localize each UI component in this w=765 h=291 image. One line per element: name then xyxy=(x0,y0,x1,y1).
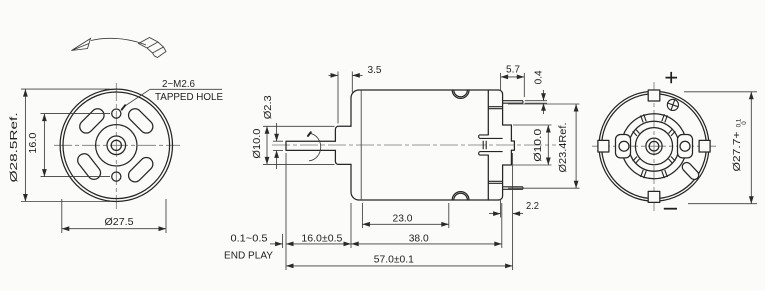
ring circle xyxy=(622,114,687,179)
axis centerline xyxy=(272,144,556,146)
right brush window xyxy=(678,135,693,158)
end play ext lines xyxy=(282,234,284,248)
dimension 16.0 xyxy=(28,114,110,177)
dimension 23.0 xyxy=(362,203,448,228)
minus mark xyxy=(664,208,677,210)
svg-text:38.0: 38.0 xyxy=(409,233,429,245)
rotation arrow around shaft xyxy=(309,133,321,161)
dimension Ø10.0 left xyxy=(252,126,335,164)
inner finger top xyxy=(479,135,503,139)
dimension 57.0±0.1 xyxy=(286,153,513,270)
right brush hole xyxy=(680,141,690,151)
rear bearing tip xyxy=(511,141,514,150)
end cap outline xyxy=(499,90,503,200)
svg-text:Ø10.0: Ø10.0 xyxy=(252,128,263,158)
diagonal vent slot SE xyxy=(680,161,700,182)
terminal slot lines bottom xyxy=(488,181,502,183)
dimension row: END PLAY / 16.0±0.5 / 38.0 xyxy=(224,153,502,270)
tab top xyxy=(648,90,660,101)
centerline horizontal xyxy=(54,144,180,146)
dimension Ø2.3 xyxy=(263,95,283,169)
tapped hole top xyxy=(112,109,121,118)
shaft xyxy=(286,141,335,150)
svg-text:3.5: 3.5 xyxy=(368,64,382,76)
left brush hole xyxy=(619,141,629,151)
radial bar 110deg xyxy=(641,114,647,122)
dimension 5.7 xyxy=(501,64,525,98)
spoke lines SE xyxy=(669,157,676,164)
svg-text:TAPPED HOLE: TAPPED HOLE xyxy=(155,92,223,103)
tab right xyxy=(699,140,710,152)
dimension Ø27.5 xyxy=(62,199,166,233)
can rear rim xyxy=(487,90,489,200)
front bearing boss xyxy=(335,126,351,164)
rear boss xyxy=(503,125,512,165)
svg-text:2.2: 2.2 xyxy=(526,200,539,212)
tab bottom xyxy=(648,191,660,202)
terminal slot lines top xyxy=(488,107,502,109)
vent slot SW xyxy=(75,151,103,182)
dimension 3.5 xyxy=(329,64,382,124)
terminal bottom xyxy=(503,187,523,190)
spoke lines NW xyxy=(633,129,640,136)
tapped hole bottom xyxy=(112,172,121,181)
dimension Ø23.4Ref. xyxy=(508,104,580,188)
centerline vertical xyxy=(115,83,117,209)
hub circles xyxy=(629,121,679,171)
16.0±0.5 xyxy=(350,203,352,248)
marker circle NE xyxy=(667,99,678,110)
svg-text:0.4: 0.4 xyxy=(534,70,545,84)
svg-text:0: 0 xyxy=(741,121,748,125)
left brush window xyxy=(616,135,631,158)
bell/can seam xyxy=(360,90,362,200)
SIDE VIEW (middle) xyxy=(272,90,556,200)
outer circle xyxy=(60,89,172,201)
REAR VIEW (right) xyxy=(592,72,716,211)
svg-text:5.7: 5.7 xyxy=(506,64,520,76)
crimp notch bottom xyxy=(452,192,469,200)
FRONT VIEW (left) xyxy=(54,83,180,209)
svg-text:Ø27.7+: Ø27.7+ xyxy=(732,131,743,171)
svg-text:END PLAY: END PLAY xyxy=(224,250,273,262)
svg-text:23.0: 23.0 xyxy=(393,212,413,224)
vent slot NE xyxy=(126,106,156,136)
outer circle xyxy=(599,91,709,201)
svg-text:2~M2.6: 2~M2.6 xyxy=(162,79,196,90)
leader 2~M2.6 TAPPED HOLE xyxy=(122,79,224,110)
svg-text:Ø23.4Ref.: Ø23.4Ref. xyxy=(558,123,569,173)
dimension Ø10.0 right xyxy=(513,125,552,165)
svg-text:0.1~0.5: 0.1~0.5 xyxy=(231,233,268,245)
dimension Ø28.5Ref. xyxy=(9,89,110,201)
front bell xyxy=(351,90,499,200)
spoke lines NE xyxy=(669,129,676,136)
inner finger bottom xyxy=(479,152,503,156)
svg-text:57.0±0.1: 57.0±0.1 xyxy=(374,254,414,266)
svg-text:Ø27.5: Ø27.5 xyxy=(105,216,134,228)
38.0 xyxy=(501,203,503,248)
bearing inner lines xyxy=(483,141,486,150)
crimp notch top xyxy=(452,90,469,98)
spoke lines SW xyxy=(633,157,640,164)
inner rim circle xyxy=(602,94,707,199)
terminal top xyxy=(503,101,523,104)
svg-text:16.0±0.5: 16.0±0.5 xyxy=(301,233,342,245)
tab left xyxy=(598,140,609,152)
radial bar 290deg xyxy=(662,170,668,178)
rotation-direction 3D arrow sketch xyxy=(72,38,167,58)
dimension Ø27.7 xyxy=(684,92,757,204)
hub circles xyxy=(96,125,137,166)
plus mark xyxy=(666,72,678,83)
dimension 2.2 xyxy=(489,199,539,218)
radial bar 250deg xyxy=(641,170,647,178)
dimension 0.4 xyxy=(525,70,547,114)
inner circle xyxy=(63,92,170,199)
svg-text:Ø28.5Ref.: Ø28.5Ref. xyxy=(9,112,20,182)
radial bar 70deg xyxy=(662,114,668,122)
centerlines xyxy=(653,82,655,211)
vent slot NW xyxy=(77,106,107,136)
svg-text:Ø2.3: Ø2.3 xyxy=(263,95,274,119)
vent slot SE xyxy=(126,155,156,185)
svg-text:Ø10.0: Ø10.0 xyxy=(533,128,544,162)
svg-text:16.0: 16.0 xyxy=(28,132,39,153)
